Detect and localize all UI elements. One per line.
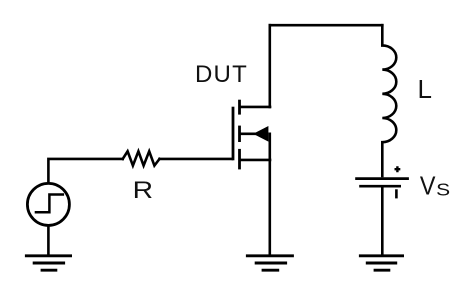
wire source top to resistor — [48, 159, 122, 183]
battery plus sign — [395, 166, 401, 172]
body arrow line — [241, 133, 256, 136]
battery VS bottom plate — [359, 185, 401, 188]
mosfet channel bar bottom — [238, 149, 241, 170]
wire inductor to battery — [381, 142, 384, 177]
top rail wire — [270, 24, 383, 27]
mosfet channel bar top — [238, 100, 241, 115]
drain wire up — [268, 25, 271, 107]
pulse step waveform — [35, 195, 64, 213]
svg-text:S: S — [436, 181, 450, 200]
svg-text:DUT: DUT — [195, 61, 248, 88]
ground under battery — [359, 256, 404, 270]
inductor L coil — [382, 45, 396, 142]
wire top rail to inductor — [381, 25, 384, 45]
source stub — [241, 159, 271, 162]
mosfet DUT gate bar — [232, 107, 235, 161]
svg-text:L: L — [418, 74, 432, 104]
ground under pulse source — [25, 256, 72, 270]
pulse source V1 circle — [27, 183, 69, 225]
ground under mosfet source — [246, 256, 294, 270]
svg-text:R: R — [133, 176, 153, 203]
wire resistor to gate — [160, 158, 232, 161]
source wire down to ground — [268, 134, 271, 256]
battery minus tick — [395, 189, 398, 198]
battery VS top plate — [355, 177, 409, 180]
drain stub — [241, 106, 271, 109]
resistor R zigzag — [123, 151, 160, 165]
body diode arrowhead — [253, 126, 268, 142]
wire battery to ground — [381, 188, 384, 256]
wire source circle to ground — [47, 226, 50, 256]
mosfet channel bar middle — [238, 126, 241, 142]
svg-text:V: V — [420, 173, 436, 201]
